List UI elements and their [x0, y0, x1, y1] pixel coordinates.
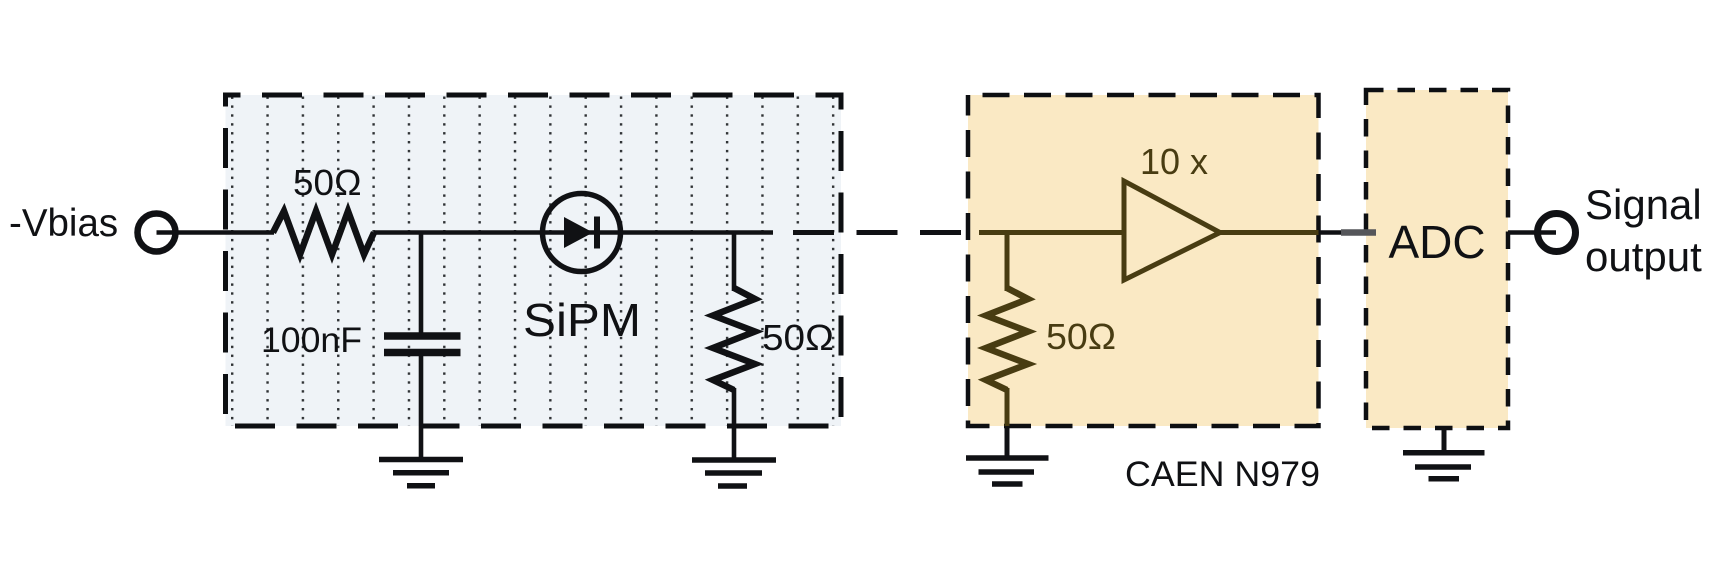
ground (amplifier input): [966, 458, 1049, 484]
input terminal: [138, 214, 176, 252]
termination resistor branch wire: [732, 233, 737, 292]
wire capacitor to ground: [419, 356, 424, 457]
wire SiPM to termination node: [620, 230, 773, 235]
wire box edge to ground: [1005, 426, 1010, 456]
svg-text:Signal: Signal: [1585, 181, 1702, 228]
capacitor 100nF: [384, 336, 461, 353]
wire amplifier output: [1220, 230, 1319, 235]
node capacitor branch: [419, 233, 424, 334]
wire amplifier input: [979, 230, 1124, 235]
wire termination resistor to ground: [732, 388, 737, 458]
wire ADC box to ground: [1442, 428, 1447, 451]
ground (ADC): [1403, 453, 1485, 479]
svg-text:100nF: 100nF: [261, 321, 362, 360]
output terminal: [1538, 214, 1576, 252]
wire amplifier to ADC (black): [1319, 230, 1342, 235]
svg-text:50Ω: 50Ω: [762, 317, 834, 358]
ground (capacitor): [379, 460, 463, 486]
svg-text:CAEN N979: CAEN N979: [1125, 455, 1320, 494]
SiPM front-end module box (dashed, light blue, dotted grid): [226, 95, 842, 426]
dashed signal wire between modules: [793, 230, 963, 235]
series resistor 50Ω: [273, 211, 374, 255]
svg-text:50Ω: 50Ω: [293, 162, 362, 203]
svg-text:output: output: [1585, 233, 1702, 280]
wire amplifier to ADC (gray): [1341, 229, 1376, 236]
svg-text:-Vbias: -Vbias: [9, 202, 118, 245]
wire ADC to output terminal: [1508, 230, 1556, 235]
svg-text:SiPM: SiPM: [523, 294, 641, 346]
wire input terminal to resistor: [157, 230, 275, 235]
svg-text:ADC: ADC: [1388, 216, 1485, 268]
SiPM diode: [543, 194, 621, 272]
svg-text:10 x: 10 x: [1140, 141, 1208, 182]
wire resistor to SiPM: [374, 230, 544, 235]
CAEN N979 amplifier box (dashed, tan): [968, 95, 1319, 426]
op-amp 10x: [1124, 181, 1220, 280]
label Signal output: [1585, 181, 1702, 280]
termination resistor 50Ω: [713, 288, 755, 390]
amplifier input resistor branch wire: [1005, 233, 1010, 292]
ground (termination resistor): [692, 460, 776, 486]
ADC box (dashed, tan): [1366, 90, 1508, 428]
wire amplifier resistor to box edge: [1005, 388, 1010, 428]
svg-text:50Ω: 50Ω: [1046, 316, 1116, 357]
amplifier input resistor 50Ω: [986, 288, 1028, 390]
